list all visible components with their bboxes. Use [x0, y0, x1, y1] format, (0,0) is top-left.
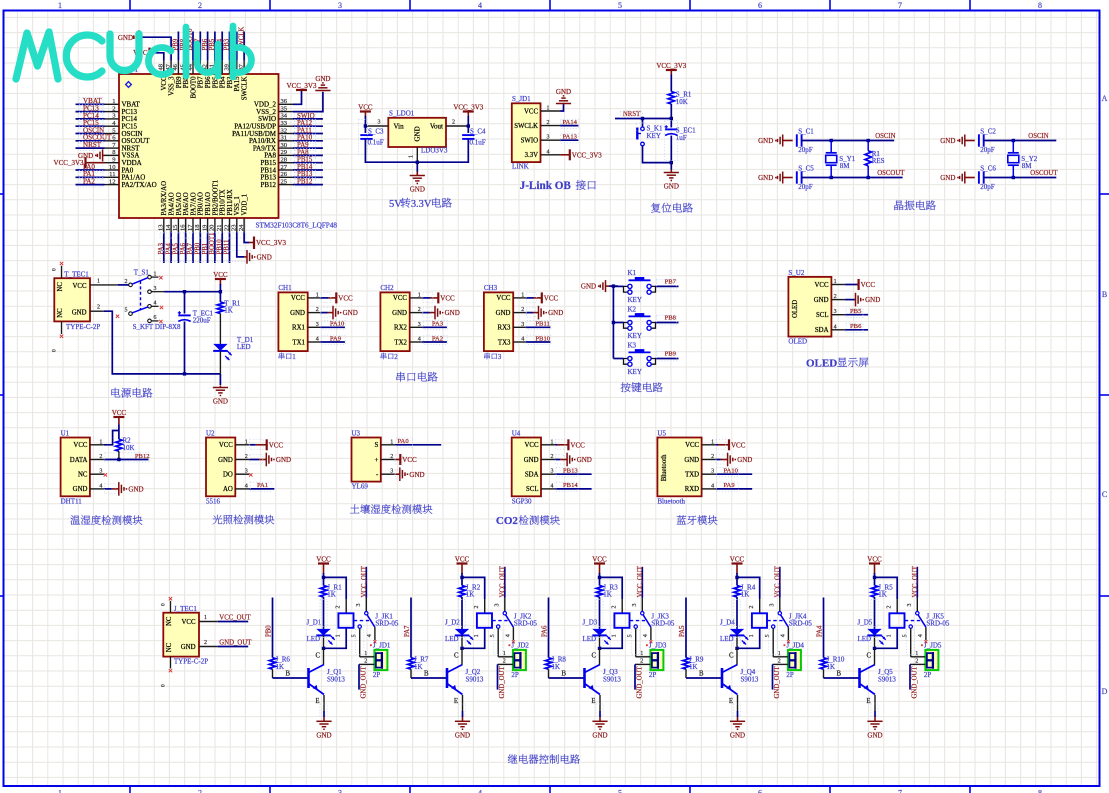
svg-text:CH3: CH3: [484, 284, 498, 292]
svg-text:GND: GND: [445, 309, 460, 317]
CH1 pin 3 RX1: [308, 326, 321, 328]
svg-text:2: 2: [915, 659, 918, 665]
svg-text:33: 33: [281, 120, 288, 127]
U4 pin 2 GND: [541, 459, 555, 461]
net label PA1 wire: [249, 488, 274, 490]
svg-text:2: 2: [336, 606, 342, 609]
title J-Link OB interface: [520, 180, 596, 192]
svg-text:PA5: PA5: [679, 625, 686, 637]
svg-text:2: 2: [452, 120, 455, 126]
T_TEC1 shell stubs with no-connect marks: [61, 266, 63, 279]
svg-text:PB10: PB10: [216, 239, 223, 255]
svg-text:PA11: PA11: [297, 127, 312, 134]
svg-text:C: C: [591, 653, 596, 660]
svg-text:BOOT1: BOOT1: [209, 233, 216, 255]
svg-text:NRST: NRST: [623, 111, 641, 118]
svg-text:SCL: SCL: [816, 312, 828, 319]
svg-text:13: 13: [158, 225, 165, 231]
svg-text:3: 3: [834, 309, 837, 315]
svg-text:VCC: VCC: [219, 442, 233, 449]
svg-text:8: 8: [1038, 1, 1042, 10]
svg-text:PA4/AO: PA4/AO: [169, 192, 176, 215]
svg-text:PB12: PB12: [297, 179, 313, 186]
svg-text:VCC: VCC: [815, 282, 829, 289]
wire T_R1 to LED: [219, 314, 221, 344]
resistor S_R1 10K: [668, 92, 674, 105]
wire VCC to MCU pin 48: [150, 53, 164, 61]
wire C3 to ground bus: [365, 139, 417, 162]
power VCC at U5 pin1: [716, 444, 718, 446]
wire J_R5 to LED: [874, 597, 876, 629]
svg-text:1: 1: [474, 634, 480, 637]
svg-text:3: 3: [711, 469, 714, 475]
svg-text:J_JD2: J_JD2: [511, 642, 529, 650]
svg-text:4: 4: [551, 483, 554, 489]
ground GND at S_C1: [782, 135, 784, 147]
relay pin5: [909, 625, 912, 628]
resistor R2 10K pull-up: [116, 439, 122, 451]
svg-text:KEY: KEY: [628, 296, 642, 304]
title bluetooth module: [677, 515, 686, 524]
svg-text:E: E: [591, 698, 595, 705]
svg-text:3: 3: [99, 469, 102, 475]
svg-text:SGP30: SGP30: [512, 497, 532, 505]
svg-text:32: 32: [281, 127, 288, 134]
svg-text:1: 1: [204, 615, 207, 621]
wire LED to collector node: [461, 635, 463, 648]
svg-text:VCC_3V3: VCC_3V3: [256, 239, 286, 247]
MCU left net labels VBAT PC13 PC14 PC15 OSCIN OSCOUT NRST PA0 PA1 PA2: [76, 103, 105, 105]
svg-text:VCC: VCC: [161, 76, 168, 90]
svg-text:GND: GND: [940, 174, 955, 182]
net label NRST wire: [615, 118, 671, 120]
svg-text:3: 3: [521, 322, 524, 328]
svg-text:PB13: PB13: [563, 468, 578, 475]
svg-text:GND: GND: [455, 732, 470, 740]
svg-text:VSS_3: VSS_3: [169, 76, 176, 96]
power VCC_3V3 at MCU pin 9 VDDA: [54, 157, 105, 168]
svg-text:VCC: VCC: [685, 442, 699, 449]
wire TEC1 GND down to bottom bus: [104, 311, 220, 374]
svg-text:VCC: VCC: [358, 103, 373, 111]
svg-text:TYPE-C-2P: TYPE-C-2P: [66, 323, 100, 331]
transistor J_Q3 S9013: [583, 668, 586, 688]
svg-text:GND: GND: [730, 732, 745, 740]
svg-text:5516: 5516: [206, 497, 221, 505]
relay pin4: [374, 627, 376, 640]
svg-text:B: B: [562, 671, 567, 678]
svg-text:4: 4: [316, 337, 319, 343]
wire MCU pin36 VDD_2 to VCC_3V3: [293, 91, 302, 104]
wire S_C6 to OSCOUT: [983, 177, 1056, 179]
svg-text:2: 2: [316, 307, 319, 313]
relay moving contact: [918, 615, 926, 627]
svg-text:J_JD1: J_JD1: [373, 642, 391, 650]
wire VCC to relay coil: [324, 577, 347, 599]
svg-text:J_D4: J_D4: [720, 618, 735, 626]
capacitor S_C2 20pF: [978, 134, 980, 146]
J_TEC1 shell stubs: [170, 601, 172, 613]
svg-text:2P: 2P: [786, 671, 794, 679]
svg-text:3: 3: [632, 604, 638, 607]
svg-text:LED: LED: [720, 635, 734, 643]
wire J_R4 to LED: [736, 597, 738, 629]
svg-text:PA6: PA6: [180, 242, 187, 254]
svg-text:1: 1: [547, 106, 550, 112]
relay pin5: [634, 625, 637, 628]
svg-text:E: E: [315, 698, 319, 705]
ground GND at S_C5: [782, 172, 784, 184]
svg-text:VCC_OUT: VCC_OUT: [912, 565, 919, 597]
svg-text:1: 1: [778, 651, 781, 657]
svg-text:3: 3: [547, 135, 550, 141]
svg-text:4: 4: [245, 483, 248, 489]
svg-text:2: 2: [390, 454, 393, 460]
resistor J_R10 1K base: [820, 658, 826, 670]
svg-text:VCC: VCC: [496, 295, 510, 302]
svg-text:GND: GND: [392, 310, 407, 317]
net label PA10 wire: [716, 473, 753, 475]
svg-text:SWCLK: SWCLK: [242, 76, 249, 100]
svg-text:GND_OUT: GND_OUT: [499, 666, 506, 699]
svg-text:5: 5: [628, 634, 634, 637]
svg-text:PA3/RX/AO: PA3/RX/AO: [161, 181, 168, 216]
LED J_D2: [455, 629, 469, 636]
svg-text:NC: NC: [57, 308, 64, 318]
net label PB12 wire: [104, 459, 149, 461]
transistor J_Q4 S9013: [721, 668, 724, 688]
svg-text:J_JD3: J_JD3: [649, 642, 667, 650]
svg-text:2: 2: [394, 353, 398, 361]
relay pin3 common: [916, 598, 918, 612]
OLED pins 1-4: [831, 284, 845, 286]
svg-text:5: 5: [765, 634, 771, 637]
svg-text:3: 3: [378, 120, 381, 126]
ground GND of LDO: [416, 162, 418, 172]
net label PB14 wire: [555, 488, 592, 490]
svg-text:1K: 1K: [827, 663, 836, 671]
svg-text:J-Link OB: J-Link OB: [520, 180, 572, 192]
svg-text:S_KFT DIP-8X8: S_KFT DIP-8X8: [133, 323, 181, 331]
svg-text:B: B: [837, 671, 842, 678]
svg-text:LINK: LINK: [512, 163, 529, 171]
svg-text:OLED: OLED: [788, 337, 807, 345]
svg-text:SWIO: SWIO: [297, 113, 315, 120]
relay moving contact: [643, 615, 651, 627]
connector J_TEC1 TYPE-C-2P body: [163, 613, 199, 657]
module U5 Bluetooth body: [657, 438, 701, 497]
svg-text:VCC_OUT: VCC_OUT: [637, 565, 644, 597]
svg-text:VCC: VCC: [570, 441, 585, 449]
svg-text:1: 1: [521, 292, 524, 298]
svg-text:17: 17: [187, 224, 194, 231]
svg-text:PB6: PB6: [202, 38, 209, 50]
title OLED display: [806, 357, 868, 369]
ground GND at CH1 pin2: [320, 312, 327, 314]
CH3 pin 4 TX3: [513, 341, 526, 343]
wire switch pin3 to VCC rail: [164, 291, 220, 293]
svg-text:PA12: PA12: [297, 120, 313, 127]
U4 pin 4 SCL: [541, 488, 555, 490]
net label PA10 wire: [320, 326, 345, 328]
svg-text:Vin: Vin: [394, 123, 405, 131]
svg-text:NC: NC: [78, 472, 88, 479]
wire emitter to GND: [874, 695, 876, 711]
svg-text:PB14: PB14: [297, 164, 313, 171]
svg-text:26: 26: [281, 171, 288, 178]
wire J_R10 to base: [823, 669, 825, 678]
svg-text:PB10/TX: PB10/TX: [220, 189, 227, 215]
net VCC_OUT wire of channel 3: [641, 567, 643, 598]
wire VCC to relay coil: [737, 577, 760, 599]
svg-text:20pF: 20pF: [798, 146, 813, 154]
ground GND at CH2 pin2: [422, 312, 429, 314]
wire collector node to relay coil pin1: [462, 628, 485, 649]
svg-text:LDO3V3: LDO3V3: [421, 147, 448, 155]
svg-text:GND: GND: [577, 456, 592, 464]
pushbutton S_K1 KEY: [642, 119, 644, 128]
label 串口3: [484, 353, 490, 360]
ground GND of channel 4: [737, 717, 739, 722]
U2 pin 3 DO: [235, 473, 249, 475]
power VCC_3V3 at JD1 pin4: [560, 154, 570, 156]
LED J_D3: [592, 629, 606, 636]
OLED module S_U2 body: [788, 277, 831, 337]
svg-text:VCC: VCC: [730, 555, 745, 563]
svg-text:25: 25: [281, 178, 288, 185]
svg-text:VCC_OUT: VCC_OUT: [774, 565, 781, 597]
svg-text:OSCIN: OSCIN: [1028, 133, 1048, 140]
relay moving contact: [781, 615, 789, 627]
svg-text:1: 1: [834, 279, 837, 285]
svg-text:6: 6: [758, 789, 762, 793]
svg-text:VDD_1: VDD_1: [242, 194, 249, 216]
CH2 pin 2 GND: [410, 312, 423, 314]
U3 pin 2 +: [381, 459, 395, 461]
svg-text:12: 12: [109, 178, 116, 185]
svg-text:PA2/TX/AO: PA2/TX/AO: [122, 181, 157, 189]
MCUclub logo: [16, 32, 58, 79]
wire collector node to relay coil pin1: [600, 628, 623, 649]
CH3 pin 1 VCC: [513, 297, 526, 299]
svg-text:RX3: RX3: [498, 325, 511, 332]
svg-text:+: +: [374, 457, 378, 464]
net label PB8 wire: [656, 322, 679, 324]
svg-text:DO: DO: [223, 472, 233, 479]
svg-text:4: 4: [418, 337, 421, 343]
svg-text:10K: 10K: [123, 444, 135, 452]
svg-text:SWCLK: SWCLK: [514, 123, 538, 130]
svg-text:VCC: VCC: [269, 441, 284, 449]
svg-text:23: 23: [231, 225, 238, 231]
wire collector: [323, 648, 325, 664]
svg-text:J_JD5: J_JD5: [924, 642, 942, 650]
transistor J_Q5 S9013: [858, 668, 861, 688]
wire MCU pin23 VSS_1 to GND: [237, 232, 244, 257]
svg-text:1: 1: [99, 439, 102, 445]
svg-text:S_C2: S_C2: [980, 127, 996, 135]
ground GND of power circuit: [219, 386, 221, 388]
ground GND at U4 pin2: [555, 459, 560, 461]
svg-text:PA10: PA10: [297, 135, 313, 142]
svg-text:GND_OUT: GND_OUT: [912, 666, 919, 699]
svg-text:8M: 8M: [840, 162, 851, 170]
svg-text:S9013: S9013: [327, 676, 345, 684]
svg-text:14: 14: [165, 224, 172, 231]
power VCC_3V3 at MCU pin 24: [253, 237, 255, 250]
svg-text:S_C6: S_C6: [980, 164, 996, 172]
svg-text:2: 2: [112, 105, 115, 112]
svg-text:PB9: PB9: [173, 38, 180, 50]
U2 pin 2 GND: [235, 459, 249, 461]
net label PA5 wire: [685, 598, 687, 658]
wire S_K1 to bottom: [643, 146, 672, 163]
CH1 pin 2 GND: [308, 312, 321, 314]
relay pin5: [772, 625, 775, 628]
svg-text:GND: GND: [343, 309, 358, 317]
svg-text:Bluetooth: Bluetooth: [657, 497, 685, 505]
svg-text:PA2: PA2: [83, 178, 95, 186]
J_JD1 pin1 lead: [360, 656, 375, 658]
svg-text:VSS_1: VSS_1: [234, 196, 241, 215]
J_JD4 pin1 lead: [773, 656, 788, 658]
svg-text:5V: 5V: [389, 199, 402, 210]
svg-text:20: 20: [209, 225, 216, 231]
svg-text:20pF: 20pF: [980, 183, 995, 191]
svg-text:19: 19: [201, 225, 208, 231]
MCU top net labels PB9 PB8 BOOT0 PB7 PB6 PB5 PB4 PB3 PA15 SWCLK: [177, 32, 179, 61]
net label PB11 wire: [526, 326, 551, 328]
wire emitter to GND: [599, 695, 601, 711]
svg-text:1: 1: [112, 98, 115, 105]
svg-text:4: 4: [478, 789, 482, 793]
wire J_R2 to LED: [461, 597, 463, 629]
svg-text:VCC_3V3: VCC_3V3: [287, 82, 317, 90]
svg-text:GND: GND: [737, 456, 752, 464]
svg-text:GND: GND: [758, 174, 773, 182]
svg-text:S9013: S9013: [878, 676, 896, 684]
net label PA3 wire: [422, 326, 447, 328]
svg-text:LED: LED: [858, 635, 872, 643]
title CO2 detection module: [496, 515, 560, 527]
svg-text:PA14: PA14: [563, 119, 578, 126]
LED T_D1: [213, 344, 227, 351]
U4 pin 3 SDA: [541, 473, 555, 475]
svg-text:3.3V: 3.3V: [525, 152, 538, 159]
label 串口1: [279, 353, 285, 360]
svg-text:PA4: PA4: [816, 625, 823, 637]
svg-text:4: 4: [367, 634, 373, 637]
svg-text:1K: 1K: [552, 663, 561, 671]
svg-text:S_LDO1: S_LDO1: [389, 110, 415, 118]
capacitor S_EC1 1uF polarized: [670, 119, 672, 128]
net label PA9 wire: [320, 341, 345, 343]
svg-text:2: 2: [521, 307, 524, 313]
net label PA9 wire: [716, 488, 753, 490]
svg-text:VCC_OUT: VCC_OUT: [219, 614, 251, 621]
svg-text:VCC_3V3: VCC_3V3: [54, 159, 84, 167]
svg-text:U2: U2: [206, 430, 215, 438]
net label PB5 wire: [845, 314, 868, 316]
net VCC_OUT wire of channel 2: [504, 567, 506, 598]
svg-text:GND: GND: [118, 34, 133, 42]
wire K1 to column: [613, 285, 623, 287]
svg-text:VCC: VCC: [291, 295, 305, 302]
svg-text:8M: 8M: [1022, 162, 1033, 170]
MCU left pins 1-12: [105, 103, 120, 105]
CH2 pin 3 RX2: [410, 326, 423, 328]
svg-text:SRD-05: SRD-05: [926, 620, 949, 628]
svg-text:VCC: VCC: [525, 442, 539, 449]
capacitor S_C5 20pF: [796, 171, 798, 183]
svg-text:PB0: PB0: [195, 242, 202, 254]
svg-text:PB6: PB6: [850, 323, 862, 330]
svg-text:PB7: PB7: [665, 279, 677, 286]
svg-text:GND: GND: [865, 296, 880, 304]
svg-text:1: 1: [336, 634, 342, 637]
svg-text:1: 1: [316, 292, 319, 298]
svg-text:1: 1: [915, 651, 918, 657]
svg-text:C: C: [454, 653, 459, 660]
ground GND at S_C6: [964, 172, 966, 184]
svg-text:GND: GND: [181, 644, 196, 651]
svg-text:DATA: DATA: [70, 457, 88, 464]
label 串口2: [381, 353, 387, 360]
CH3 pin 2 GND: [513, 312, 526, 314]
svg-text:SRD-05: SRD-05: [375, 620, 398, 628]
svg-text:PA10: PA10: [330, 321, 345, 328]
U1 pin 3 NC: [90, 473, 104, 475]
power VCC at CH2 pin1: [422, 297, 430, 299]
svg-text:48: 48: [158, 64, 165, 70]
svg-text:0: 0: [52, 268, 58, 271]
U4 pin 1 VCC: [541, 444, 555, 446]
U1 pin 4 GND: [90, 488, 104, 490]
relay pin4: [787, 627, 789, 640]
net label PB6 wire: [845, 329, 868, 331]
CH1 pin 4 TX1: [308, 341, 321, 343]
svg-text:GND: GND: [592, 732, 607, 740]
svg-text:39: 39: [223, 64, 230, 70]
wire J_R7 to base: [410, 669, 412, 678]
no connect at U1 pin3: [104, 473, 107, 476]
J_JD2 pin1 lead: [498, 656, 513, 658]
svg-text:GND: GND: [548, 309, 563, 317]
LED J_D4: [730, 629, 744, 636]
svg-text:J_TEC1: J_TEC1: [174, 605, 197, 613]
svg-text:36: 36: [281, 98, 288, 105]
svg-text:T_TEC1: T_TEC1: [64, 270, 89, 278]
net label PA7 wire: [410, 598, 412, 658]
svg-text:2: 2: [364, 659, 367, 665]
svg-text:OLED: OLED: [806, 357, 837, 369]
U5 pin 3 TXD: [702, 473, 716, 475]
svg-text:K2: K2: [628, 305, 637, 313]
svg-text:2: 2: [97, 305, 100, 311]
svg-text:10K: 10K: [676, 98, 688, 106]
svg-text:1K: 1K: [603, 591, 612, 599]
ground GND at OLED pin2: [845, 299, 855, 301]
LED J_D1: [316, 629, 330, 636]
svg-text:2: 2: [711, 454, 714, 460]
svg-text:RXD: RXD: [685, 486, 699, 493]
svg-text:1uF: 1uF: [676, 134, 687, 142]
svg-text:0: 0: [161, 684, 167, 687]
svg-text:3: 3: [356, 604, 362, 607]
net label PA2 wire: [422, 341, 447, 343]
wire J_R8 to base: [548, 669, 550, 678]
title serial port circuit: [396, 372, 405, 382]
